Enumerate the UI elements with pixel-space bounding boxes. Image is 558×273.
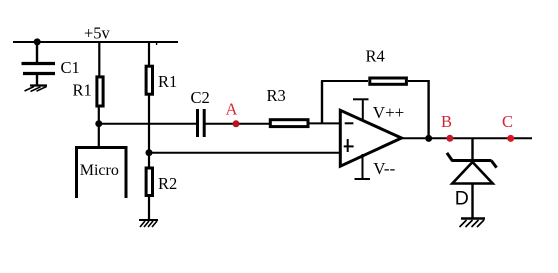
wire C1 top lead: [36, 41, 38, 62]
wire R2 bottom lead: [148, 197, 150, 219]
svg-text:R2: R2: [158, 174, 177, 193]
wire R4 to output: [408, 80, 430, 82]
wire output: [401, 137, 532, 139]
op-amp V++ power pin: [353, 99, 369, 120]
resistor R4: [370, 78, 407, 84]
wire Micro top lead: [98, 124, 100, 147]
svg-text:R1: R1: [158, 72, 177, 91]
node plus-input junction: [146, 149, 153, 156]
node B: [446, 135, 453, 142]
svg-text:C: C: [502, 112, 513, 131]
microphone Micro box: [77, 148, 127, 199]
wire top +5v rail: [13, 41, 178, 43]
wire rail stub artifact: [156, 43, 158, 46]
wire zener bottom lead: [471, 184, 473, 219]
op-amp plus marker: [344, 139, 354, 152]
svg-text:C2: C2: [191, 88, 210, 107]
svg-text:D: D: [455, 188, 469, 210]
wire R1b top lead: [148, 41, 150, 67]
wire zener top lead: [471, 138, 473, 161]
svg-text:Micro: Micro: [80, 162, 119, 179]
svg-text:R4: R4: [366, 46, 385, 65]
node A-line junction: [95, 120, 102, 127]
ground under C1: [25, 86, 48, 92]
wire feedback to R4: [321, 80, 368, 82]
svg-text:C1: C1: [61, 58, 80, 77]
svg-text:A: A: [226, 100, 238, 119]
wire feedback tap: [321, 81, 323, 123]
wire C1 bottom lead: [36, 75, 38, 85]
node junction on +5v rail: [34, 38, 41, 45]
wire C2 to R3: [206, 123, 271, 125]
resistor R2: [146, 168, 152, 196]
op-amp minus marker: [345, 122, 354, 124]
resistor R3: [270, 120, 308, 127]
node output junction: [425, 135, 432, 142]
svg-text:R1: R1: [73, 81, 92, 100]
wire R1a bottom lead: [98, 107, 100, 124]
wire plus input: [149, 152, 340, 154]
svg-text:B: B: [441, 112, 452, 131]
svg-text:V--: V--: [373, 159, 395, 178]
wire R1a top lead: [98, 41, 100, 77]
wire feedback down to output node: [427, 80, 429, 138]
op-amp V-- power pin: [355, 154, 371, 179]
ground under D: [460, 219, 486, 228]
capacitor C2: [198, 109, 205, 137]
svg-text:R3: R3: [267, 86, 286, 105]
svg-text:V++: V++: [373, 103, 404, 122]
zener diode D triangle: [452, 162, 492, 184]
ground under R2: [139, 220, 158, 227]
node A: [233, 120, 240, 127]
capacitor C1: [22, 64, 56, 74]
zener diode D cathode bar: [447, 153, 497, 168]
node C: [507, 135, 514, 142]
wire R1b bottom lead crossing to node: [148, 96, 150, 169]
svg-text:+5v: +5v: [84, 24, 111, 43]
resistor R1 (left): [97, 77, 103, 106]
resistor R1 (right): [146, 66, 152, 94]
wire R3 to op-amp: [307, 122, 340, 124]
wire node to C2: [99, 123, 196, 125]
op-amp U1: [340, 110, 401, 166]
